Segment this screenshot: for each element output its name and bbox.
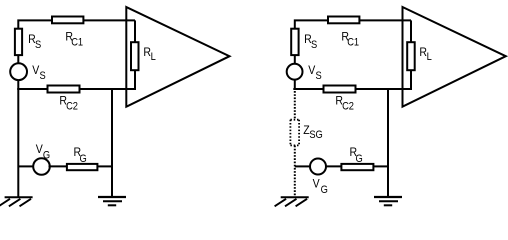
wire: V_G branch left (right circuit) bbox=[295, 165, 310, 167]
resistor R_C2 (right) bbox=[324, 86, 356, 93]
svg-text:ZSG: ZSG bbox=[303, 124, 323, 141]
voltage source V_S bbox=[10, 63, 27, 80]
wire: right vertical rail bbox=[111, 88, 113, 197]
ground (earth) left circuit bbox=[0, 197, 33, 206]
wire: V_G branch left bbox=[18, 165, 33, 167]
resistor R_G (right) bbox=[341, 164, 373, 170]
wire: R_L bottom lead bbox=[134, 71, 136, 91]
wire: left vertical rail bbox=[17, 88, 19, 197]
svg-text:RL: RL bbox=[143, 47, 156, 64]
svg-text:RS: RS bbox=[304, 34, 317, 52]
voltage source V_G bbox=[33, 158, 50, 175]
svg-text:RS: RS bbox=[28, 34, 41, 52]
svg-text:RC2: RC2 bbox=[59, 95, 78, 113]
wire: dotted line below Z_SG bbox=[294, 146, 296, 197]
svg-text:VS: VS bbox=[32, 65, 46, 83]
resistor R_S bbox=[15, 29, 22, 55]
wire: dotted line above Z_SG bbox=[294, 91, 296, 120]
wire: R_C2 rail right bbox=[80, 88, 135, 90]
voltage source V_S (right) bbox=[287, 64, 303, 80]
wire: R_C2 rail right (right circuit) bbox=[356, 88, 411, 90]
svg-text:RC1: RC1 bbox=[341, 31, 359, 49]
wire bbox=[374, 165, 390, 167]
resistor R_G bbox=[67, 164, 98, 170]
ground (3-bar) right circuit bbox=[374, 197, 402, 205]
svg-text:RC2: RC2 bbox=[335, 95, 354, 113]
wire: R_L top lead (right) bbox=[410, 20, 412, 43]
op-amp triangle (right) bbox=[403, 7, 506, 107]
svg-text:RC1: RC1 bbox=[65, 31, 83, 49]
wire bbox=[294, 56, 296, 64]
wire: R_L top lead bbox=[134, 20, 136, 43]
wire bbox=[17, 56, 19, 64]
wire bbox=[17, 80, 19, 91]
resistor R_C1 (right) bbox=[328, 17, 359, 24]
svg-text:VS: VS bbox=[308, 65, 322, 83]
wire bbox=[49, 165, 68, 167]
wire: left top rail bbox=[18, 20, 135, 28]
wire: right vertical rail (right circuit) bbox=[387, 88, 389, 197]
resistor R_L (right) bbox=[407, 42, 415, 70]
svg-text:RG: RG bbox=[74, 147, 87, 166]
ground (earth) right circuit bbox=[275, 197, 309, 206]
wire bbox=[294, 80, 296, 91]
impedance Z_SG (dashed box) bbox=[290, 120, 299, 146]
wire: R_C2 rail left (right circuit) bbox=[293, 88, 323, 90]
svg-text:RL: RL bbox=[419, 47, 432, 64]
resistor R_L bbox=[131, 42, 139, 70]
wire bbox=[98, 165, 114, 167]
ground (3-bar) left circuit bbox=[98, 197, 126, 205]
wire: right top rail bbox=[295, 20, 411, 28]
resistor R_S (right) bbox=[291, 29, 298, 55]
voltage source V_G (right) bbox=[310, 159, 326, 175]
svg-text:VG: VG bbox=[313, 178, 328, 196]
wire: R_L bottom lead (right) bbox=[410, 71, 412, 91]
op-amp triangle bbox=[126, 7, 229, 107]
svg-text:RG: RG bbox=[350, 147, 363, 166]
wire bbox=[326, 165, 343, 167]
resistor R_C1 bbox=[52, 17, 83, 24]
wire: R_C2 rail left bbox=[17, 88, 47, 90]
resistor R_C2 bbox=[48, 86, 80, 93]
